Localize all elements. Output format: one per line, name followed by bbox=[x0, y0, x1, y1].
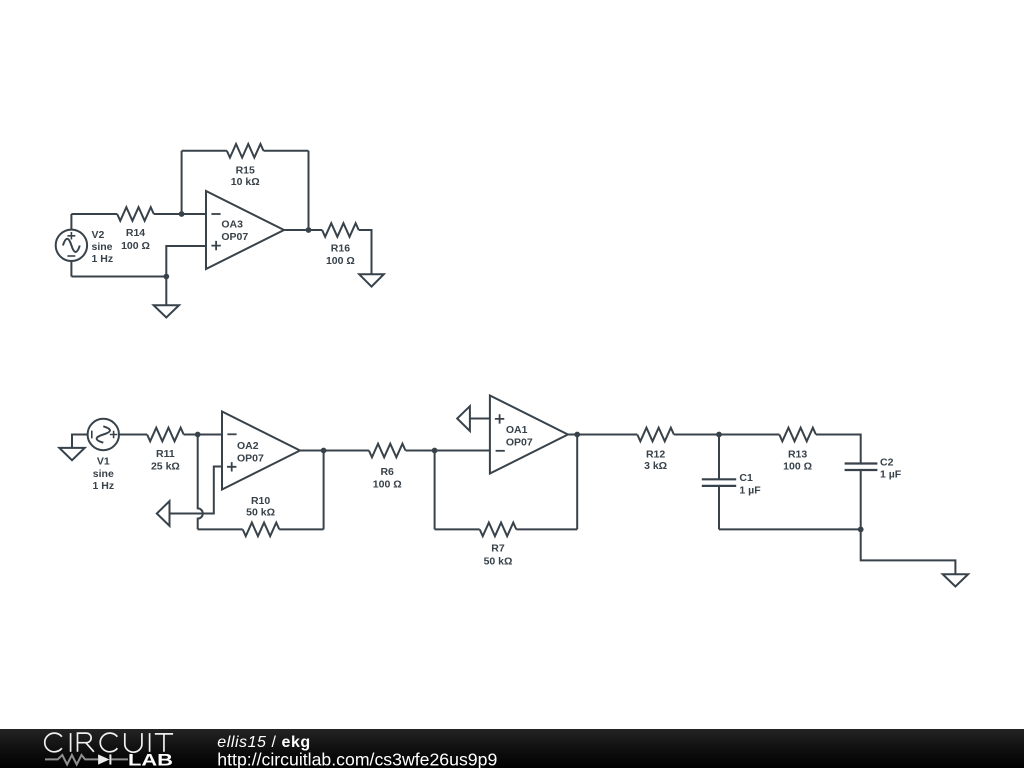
svg-text:C1: C1 bbox=[739, 472, 753, 484]
svg-text:OP07: OP07 bbox=[506, 436, 533, 448]
svg-text:R7: R7 bbox=[491, 543, 505, 555]
ground right of R16 bbox=[359, 274, 384, 286]
op-amp OA1 bbox=[490, 396, 568, 474]
svg-text:R13: R13 bbox=[788, 449, 807, 461]
wire OA3 noninverting input bbox=[166, 246, 206, 277]
svg-text:R6: R6 bbox=[380, 466, 394, 478]
resistor R16 bbox=[322, 223, 359, 267]
wire feedback top right bbox=[264, 150, 309, 152]
ground bottom right bbox=[943, 574, 968, 586]
wire V1 to R11 bbox=[119, 434, 147, 436]
node at C2 bottom bbox=[858, 527, 864, 533]
svg-text:50 kΩ: 50 kΩ bbox=[246, 506, 275, 518]
node at OA1 output bbox=[574, 432, 580, 438]
logo CIRCUIT lettering bbox=[45, 733, 173, 752]
wire bottom RC rail bbox=[719, 528, 861, 530]
node at OA2 inverting input bbox=[195, 432, 201, 438]
svg-text:V2: V2 bbox=[92, 229, 105, 241]
node at ground junction bbox=[163, 274, 169, 280]
resistor R15 bbox=[227, 144, 264, 188]
svg-text:ellis15 / ekg: ellis15 / ekg bbox=[217, 734, 310, 751]
wire R16 to ground bbox=[359, 230, 372, 274]
ground at OA1 noninverting input bbox=[457, 406, 470, 431]
svg-text:R16: R16 bbox=[331, 243, 350, 255]
wire R10 right lead bbox=[279, 528, 323, 530]
op-amp OA2 bbox=[222, 412, 300, 490]
wire feedback right vertical bbox=[308, 151, 310, 230]
node at OA3 inverting input bbox=[179, 211, 185, 217]
logo resistor squiggle and wire bbox=[45, 755, 98, 765]
wire R6 to OA1 inverting input bbox=[406, 450, 490, 452]
wire R7 left vertical bbox=[434, 451, 436, 530]
wire R7 right vertical bbox=[576, 435, 578, 530]
node at C1 top bbox=[716, 432, 722, 438]
svg-text:1 Hz: 1 Hz bbox=[92, 253, 114, 265]
ground left of V1 bbox=[59, 435, 87, 461]
voltage source V1 bbox=[88, 419, 119, 492]
wire R7 left lead bbox=[435, 528, 480, 530]
resistor R6 bbox=[369, 444, 406, 491]
svg-text:10 kΩ: 10 kΩ bbox=[231, 176, 260, 188]
wire OA2 output bbox=[300, 450, 369, 452]
wire C1 node to R13 bbox=[719, 434, 779, 436]
svg-text:3 kΩ: 3 kΩ bbox=[644, 460, 667, 472]
svg-text:100 Ω: 100 Ω bbox=[326, 255, 355, 267]
svg-text:sine: sine bbox=[92, 241, 113, 253]
wire V2 top lead bbox=[70, 214, 72, 230]
svg-text:R11: R11 bbox=[156, 448, 175, 460]
wire inverting node down to R10 with hop bbox=[198, 435, 203, 530]
svg-text:LAB: LAB bbox=[128, 752, 173, 768]
svg-text:OP07: OP07 bbox=[237, 453, 264, 465]
resistor R10 bbox=[243, 495, 280, 536]
svg-text:100 Ω: 100 Ω bbox=[783, 460, 812, 472]
resistor R12 bbox=[637, 428, 674, 472]
svg-text:R10: R10 bbox=[251, 495, 270, 507]
wire bottom of V2 loop bbox=[71, 276, 166, 278]
svg-text:1 µF: 1 µF bbox=[880, 469, 902, 481]
wire V2 bottom lead bbox=[70, 261, 72, 277]
capacitor C2 bbox=[845, 456, 902, 529]
svg-text:100 Ω: 100 Ω bbox=[373, 479, 402, 491]
resistor R7 bbox=[480, 523, 517, 568]
svg-text:OP07: OP07 bbox=[221, 231, 248, 243]
node at OA3 output bbox=[306, 227, 312, 233]
wire R10 right vertical bbox=[323, 451, 325, 530]
svg-text:V1: V1 bbox=[97, 455, 110, 467]
capacitor C1 bbox=[702, 435, 761, 530]
svg-text:R15: R15 bbox=[236, 164, 255, 176]
wire to bottom right ground bbox=[861, 529, 956, 574]
svg-text:C2: C2 bbox=[880, 456, 894, 468]
wire feedback left vertical bbox=[181, 151, 183, 214]
wire R13 to C2 bbox=[816, 435, 861, 464]
svg-text:1 Hz: 1 Hz bbox=[93, 480, 115, 492]
wire OA1 output bbox=[568, 434, 637, 436]
svg-text:http://circuitlab.com/cs3wfe26: http://circuitlab.com/cs3wfe26us9p9 bbox=[217, 749, 497, 768]
svg-text:100 Ω: 100 Ω bbox=[121, 240, 150, 252]
node at OA1 inverting branch bbox=[432, 448, 438, 454]
ground below OA3 noninverting input bbox=[154, 277, 179, 318]
wire OA3 output bbox=[284, 229, 322, 231]
wire feedback top left bbox=[182, 150, 227, 152]
svg-text:R12: R12 bbox=[646, 449, 665, 461]
svg-text:OA3: OA3 bbox=[221, 219, 243, 231]
svg-text:25 kΩ: 25 kΩ bbox=[151, 461, 180, 473]
svg-text:OA1: OA1 bbox=[506, 424, 528, 436]
wire OA1 noninverting input to ground bbox=[470, 418, 490, 420]
resistor R11 bbox=[147, 428, 184, 473]
op-amp OA3 bbox=[206, 191, 284, 269]
wire R14 to inverting input bbox=[154, 213, 206, 215]
ground at OA2 noninverting input bbox=[157, 501, 170, 526]
svg-text:R14: R14 bbox=[126, 227, 145, 239]
svg-text:OA2: OA2 bbox=[237, 440, 259, 452]
wire OA2 noninverting input to ground bbox=[170, 467, 223, 514]
node at OA2 output bbox=[321, 448, 327, 454]
resistor R14 bbox=[117, 207, 154, 252]
svg-text:1 µF: 1 µF bbox=[739, 485, 761, 497]
svg-text:sine: sine bbox=[93, 468, 114, 480]
resistor R13 bbox=[779, 428, 816, 473]
wire R11 to OA2 inverting input bbox=[184, 434, 222, 436]
logo diode bbox=[98, 754, 128, 764]
svg-text:50 kΩ: 50 kΩ bbox=[484, 556, 513, 568]
wire R7 right lead bbox=[516, 528, 577, 530]
wire R12 to C1 node bbox=[674, 434, 719, 436]
wire R10 left lead bbox=[198, 528, 243, 530]
voltage source V2 bbox=[56, 229, 113, 265]
wire V2 to R14 bbox=[71, 213, 117, 215]
